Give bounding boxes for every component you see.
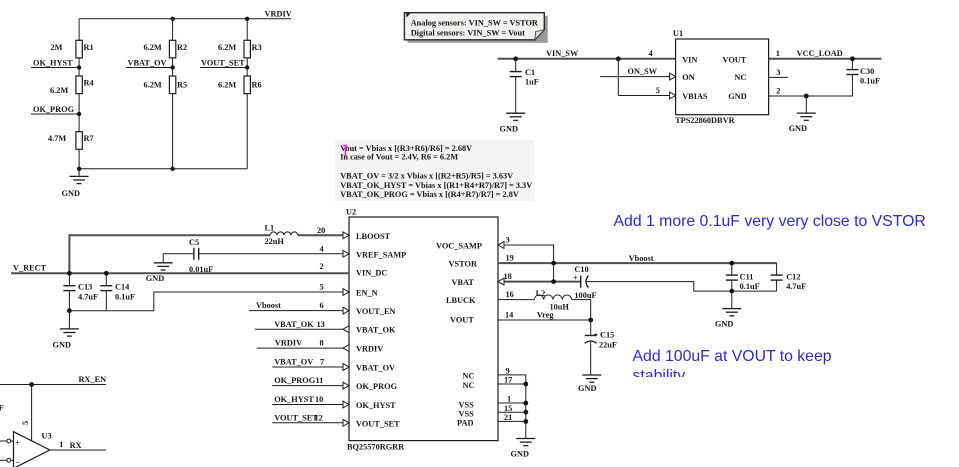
svg-text:1: 1 bbox=[59, 440, 63, 449]
junction Vboost at C11 bbox=[729, 261, 734, 266]
wire R6 to bottom rail bbox=[246, 94, 248, 169]
formula VBAT_OV bbox=[340, 171, 513, 180]
inductor L2 bbox=[534, 289, 571, 311]
node VBAT_OV stub bbox=[126, 58, 173, 67]
junction VOC at VBAT bbox=[551, 279, 556, 284]
svg-text:R4: R4 bbox=[84, 79, 94, 88]
wire VRDIV top rail bbox=[79, 18, 291, 20]
svg-text:VBAT_OV: VBAT_OV bbox=[128, 58, 167, 67]
svg-text:Add 100uF at VOUT to keep: Add 100uF at VOUT to keep bbox=[633, 348, 832, 365]
svg-text:12: 12 bbox=[315, 413, 323, 422]
svg-text:U1: U1 bbox=[673, 29, 683, 38]
svg-text:6: 6 bbox=[320, 301, 324, 310]
svg-text:R6: R6 bbox=[252, 81, 262, 90]
pin 3 stub NC U1 bbox=[769, 68, 788, 78]
junction VOC at VSTOR bbox=[551, 261, 556, 266]
svg-text:OK_HYST: OK_HYST bbox=[33, 58, 73, 67]
op-amp U1 body TPS22860DBVR bbox=[673, 29, 769, 125]
junction VSS15 bus bbox=[523, 410, 528, 415]
svg-text:OK_PROG: OK_PROG bbox=[274, 376, 316, 385]
pin 4 number U1 bbox=[649, 49, 653, 58]
svg-text:NC: NC bbox=[734, 73, 746, 82]
svg-text:R2: R2 bbox=[177, 43, 187, 52]
capacitor C13 bbox=[63, 273, 98, 310]
svg-text:RX: RX bbox=[70, 441, 82, 450]
junction OK_PROG bbox=[77, 112, 81, 116]
svg-text:VRDIV: VRDIV bbox=[275, 339, 302, 348]
svg-text:VBAT_OK_PROG = Vbias x [(R4+R7: VBAT_OK_PROG = Vbias x [(R4+R7)/R7] = 2.… bbox=[340, 190, 519, 199]
svg-text:VSS: VSS bbox=[459, 400, 475, 409]
svg-text:NC: NC bbox=[463, 381, 475, 390]
wire VSS pin1 bbox=[498, 395, 526, 404]
formula VBAT_OK_HYST bbox=[340, 181, 532, 190]
formula Vout bbox=[340, 144, 472, 153]
capacitor C11 bbox=[726, 263, 760, 291]
wire RX output bbox=[50, 440, 106, 450]
svg-text:17: 17 bbox=[504, 376, 512, 385]
svg-text:C15: C15 bbox=[600, 331, 614, 340]
junction bottom rail col2 bbox=[170, 167, 174, 171]
svg-text:13: 13 bbox=[317, 320, 325, 329]
wire U3 minus input bbox=[0, 458, 14, 462]
wire R5 to bottom rail bbox=[172, 94, 174, 169]
svg-text:LBOOST: LBOOST bbox=[356, 232, 391, 241]
pin arrow LBOOST bbox=[343, 232, 349, 239]
svg-text:16: 16 bbox=[506, 290, 514, 299]
svg-text:+: + bbox=[573, 274, 578, 283]
wire VBIAS bbox=[618, 95, 675, 97]
svg-text:C13: C13 bbox=[78, 283, 92, 292]
svg-text:VRDIV: VRDIV bbox=[356, 345, 383, 354]
junction RX_EN bbox=[29, 382, 34, 387]
svg-text:GND: GND bbox=[62, 189, 80, 198]
pin arrow EN_N bbox=[343, 289, 349, 296]
svg-text:VBAT_OK_HYST = Vbias x [(R1+R4: VBAT_OK_HYST = Vbias x [(R1+R4+R7)/R7] =… bbox=[340, 181, 532, 190]
note callout shadow bbox=[408, 16, 548, 43]
svg-text:GND: GND bbox=[53, 341, 71, 350]
svg-text:10: 10 bbox=[315, 395, 323, 404]
svg-text:VIN_SW: VIN_SW bbox=[546, 49, 579, 58]
svg-text:5: 5 bbox=[656, 86, 660, 95]
svg-text:R1: R1 bbox=[84, 43, 94, 52]
wire R2 to R5 bbox=[172, 58, 174, 76]
capacitor C12 bbox=[771, 263, 807, 291]
junction V_RECT C13 bbox=[67, 271, 72, 276]
svg-text:C5: C5 bbox=[189, 238, 199, 247]
svg-text:Vboost: Vboost bbox=[629, 254, 654, 263]
wire PAD pin21 bbox=[498, 413, 526, 422]
svg-text:VBAT_OK: VBAT_OK bbox=[274, 320, 314, 329]
wire U3 plus input bbox=[0, 439, 14, 443]
svg-text:ON: ON bbox=[682, 73, 694, 82]
ground C5 bbox=[146, 263, 173, 283]
svg-text:GND: GND bbox=[789, 124, 807, 133]
wire VSS pin15 bbox=[498, 404, 526, 413]
svg-text:6.2M: 6.2M bbox=[50, 86, 68, 95]
junction OK_HYST bbox=[77, 65, 81, 69]
svg-text:3: 3 bbox=[776, 68, 780, 77]
capacitor C10 polarized bbox=[573, 265, 597, 300]
wire VBIAS tap vertical bbox=[617, 59, 619, 96]
svg-text:2: 2 bbox=[776, 86, 780, 95]
svg-text:0.1uF: 0.1uF bbox=[860, 77, 880, 86]
node Vboost VOUT_EN stub bbox=[249, 301, 349, 310]
node ON_SW stub bbox=[600, 67, 675, 76]
svg-text:4.7M: 4.7M bbox=[48, 134, 66, 143]
wire VREF_SAMP pin4 bbox=[199, 244, 349, 253]
svg-text:U2: U2 bbox=[346, 208, 356, 217]
svg-text:2M: 2M bbox=[51, 43, 63, 52]
node VRDIV label bbox=[265, 10, 292, 19]
junction top rail R3 column bbox=[245, 17, 249, 21]
svg-text:8: 8 bbox=[320, 339, 324, 348]
node VOUT_SET stub bbox=[200, 58, 247, 67]
svg-text:VSTOR: VSTOR bbox=[449, 260, 478, 269]
node VBAT_OV stub bbox=[272, 358, 349, 367]
annotation add VOUT cap line2 clipped bbox=[633, 367, 686, 384]
formula R6 case bbox=[340, 152, 458, 161]
svg-text:Add 1 more 0.1uF very very clo: Add 1 more 0.1uF very very close to VSTO… bbox=[614, 213, 926, 230]
svg-text:14: 14 bbox=[505, 311, 513, 320]
wire column1 rail to R1 bbox=[78, 19, 80, 41]
svg-text:EN_N: EN_N bbox=[356, 289, 378, 298]
svg-text:1: 1 bbox=[776, 49, 780, 58]
wire VOC_SAMP pin3 bbox=[498, 236, 554, 282]
inductor L1 bbox=[265, 224, 298, 246]
capacitor label fragment uF bbox=[0, 404, 4, 413]
svg-text:OK_PROG: OK_PROG bbox=[356, 382, 398, 391]
wire caps bottom rail to EN_N bbox=[69, 283, 349, 311]
wire LBUCK pin16 bbox=[498, 290, 534, 299]
wire VIN_SW net bbox=[498, 49, 676, 59]
svg-text:7: 7 bbox=[320, 358, 324, 367]
svg-text:OK_HYST: OK_HYST bbox=[356, 401, 396, 410]
junction NC17 bus bbox=[523, 382, 528, 387]
junction top rail R2 column bbox=[170, 17, 174, 21]
annotation add VSTOR cap bbox=[614, 213, 926, 230]
svg-text:VSS: VSS bbox=[459, 409, 475, 418]
svg-text:TPS22860DBVR: TPS22860DBVR bbox=[675, 116, 735, 125]
svg-text:19: 19 bbox=[506, 254, 514, 263]
junction GND pin2 bbox=[804, 94, 809, 99]
svg-text:OK_PROG: OK_PROG bbox=[33, 105, 75, 114]
svg-text:−: − bbox=[16, 458, 21, 467]
resistor R7 bbox=[48, 132, 94, 150]
capacitor C1 bbox=[510, 59, 539, 113]
capacitor C14 bbox=[100, 273, 135, 310]
junction VSS1 bus bbox=[523, 401, 528, 406]
svg-text:2: 2 bbox=[320, 262, 324, 271]
svg-text:22uH: 22uH bbox=[265, 237, 285, 246]
svg-text:VBAT_OV: VBAT_OV bbox=[274, 358, 313, 367]
svg-text:Analog sensors: VIN_SW = VSTOR: Analog sensors: VIN_SW = VSTOR bbox=[411, 19, 539, 28]
svg-text:6.2M: 6.2M bbox=[218, 81, 236, 90]
svg-text:3: 3 bbox=[506, 236, 510, 245]
svg-text:VBIAS: VBIAS bbox=[682, 92, 708, 101]
wire column2 rail to R2 bbox=[172, 19, 174, 41]
wire V_RECT to LBOOST riser bbox=[69, 235, 270, 273]
junction VOUT_SET bbox=[245, 65, 249, 69]
svg-text:6.2M: 6.2M bbox=[144, 43, 162, 52]
svg-text:C1: C1 bbox=[525, 68, 535, 77]
capacitor C15 polarized bbox=[585, 320, 617, 375]
node VOUT_SET stub U2 bbox=[272, 413, 349, 422]
node VBAT_OK stub bbox=[255, 320, 349, 329]
ground U1 bbox=[789, 113, 816, 133]
pin arrow ON bbox=[670, 73, 676, 80]
svg-text:VOUT_SET: VOUT_SET bbox=[201, 58, 245, 67]
resistor R5 bbox=[144, 76, 188, 94]
svg-text:uF: uF bbox=[0, 404, 4, 413]
pin arrow VRDIV out bbox=[343, 345, 349, 352]
svg-text:VOUT_SET: VOUT_SET bbox=[356, 419, 400, 428]
wire VSTOR Vboost net bbox=[498, 254, 777, 263]
svg-text:VOUT: VOUT bbox=[723, 55, 747, 64]
svg-text:GND: GND bbox=[728, 92, 746, 101]
pin arrow VBAT_OK out bbox=[343, 326, 349, 333]
wire RX_EN net bbox=[0, 375, 106, 384]
pin arrow VBIAS bbox=[670, 92, 676, 99]
pin arrow OK_PROG bbox=[343, 382, 349, 389]
svg-text:GND: GND bbox=[511, 450, 529, 459]
junction VIN_SW at VBIAS tap bbox=[616, 56, 621, 61]
svg-text:GND: GND bbox=[146, 274, 164, 283]
svg-text:ON_SW: ON_SW bbox=[628, 67, 658, 76]
svg-text:18: 18 bbox=[504, 272, 512, 281]
svg-text:VOUT: VOUT bbox=[450, 316, 474, 325]
junction bottom rail col1 bbox=[77, 167, 81, 171]
svg-text:VREF_SAMP: VREF_SAMP bbox=[356, 250, 406, 259]
node OK_PROG stub bbox=[31, 105, 79, 114]
svg-text:0.1uF: 0.1uF bbox=[740, 282, 760, 291]
svg-text:VOUT_EN: VOUT_EN bbox=[356, 307, 395, 316]
wire bottom rail bbox=[79, 168, 247, 170]
svg-text:V_RECT: V_RECT bbox=[13, 264, 47, 273]
wire GND pin2 U1 bbox=[769, 75, 853, 97]
junction PAD bus bbox=[523, 419, 528, 424]
svg-text:R5: R5 bbox=[177, 81, 187, 90]
text caret bbox=[343, 145, 348, 156]
svg-text:NC: NC bbox=[463, 371, 475, 380]
pin arrow VOC_SAMP bbox=[498, 242, 504, 249]
svg-text:1uF: 1uF bbox=[525, 78, 539, 87]
capacitor C5 bbox=[189, 238, 213, 274]
svg-text:VBAT_OV = 3/2 x Vbias x [(R2+R: VBAT_OV = 3/2 x Vbias x [(R2+R5)/R5] = 3… bbox=[340, 171, 513, 180]
svg-text:C14: C14 bbox=[115, 283, 129, 292]
pin arrow VBAT bbox=[498, 278, 504, 285]
pin arrow VREF_SAMP bbox=[343, 250, 349, 257]
svg-text:C11: C11 bbox=[740, 272, 754, 281]
svg-text:5: 5 bbox=[21, 421, 30, 425]
svg-text:VIN: VIN bbox=[682, 55, 697, 64]
junction caps bottom rail bbox=[67, 308, 72, 313]
ground C11 bbox=[715, 309, 741, 329]
svg-text:BQ25570RGRR: BQ25570RGRR bbox=[347, 443, 405, 452]
wire GND stem divider bbox=[78, 169, 80, 177]
svg-text:4: 4 bbox=[320, 244, 324, 253]
resistor R2 bbox=[144, 40, 188, 58]
wire VBAT pin18 bbox=[498, 272, 581, 281]
junction VBAT_OV bbox=[170, 65, 174, 69]
wire VOUT pin14 Vreg bbox=[498, 311, 591, 320]
svg-text:6.2M: 6.2M bbox=[218, 43, 236, 52]
junction VIN_SW at C1 bbox=[513, 56, 518, 61]
svg-text:R7: R7 bbox=[84, 134, 94, 143]
svg-text:VIN_DC: VIN_DC bbox=[356, 268, 387, 277]
wire NC pin9 bbox=[498, 366, 526, 438]
svg-text:4.7uF: 4.7uF bbox=[78, 292, 98, 301]
svg-text:4: 4 bbox=[649, 49, 653, 58]
formulas background bbox=[335, 140, 535, 202]
wire column3 rail to R3 bbox=[246, 19, 248, 41]
svg-text:VBAT_OK: VBAT_OK bbox=[356, 326, 396, 335]
wire R1 to R4 bbox=[78, 58, 80, 76]
svg-text:Vboost: Vboost bbox=[256, 301, 281, 310]
node OK_PROG stub U2 bbox=[272, 376, 349, 385]
svg-text:VOUT_SET: VOUT_SET bbox=[274, 413, 318, 422]
svg-text:L1: L1 bbox=[265, 224, 275, 233]
svg-text:21: 21 bbox=[504, 413, 512, 422]
node OK_HYST stub bbox=[31, 58, 79, 67]
annotation add VOUT cap line1 bbox=[633, 348, 832, 365]
svg-text:1: 1 bbox=[507, 395, 511, 404]
wire GND stem U1 bbox=[805, 96, 807, 113]
wire V_RECT net bbox=[11, 262, 349, 273]
svg-text:RX_EN: RX_EN bbox=[79, 375, 107, 384]
svg-text:+: + bbox=[15, 439, 20, 448]
pin 5 number U1 bbox=[656, 86, 660, 95]
wire R4 to R7 bbox=[78, 94, 80, 132]
ground VSS bus bbox=[511, 439, 536, 459]
svg-text:GND: GND bbox=[500, 125, 518, 134]
svg-text:OK_HYST: OK_HYST bbox=[274, 395, 314, 404]
svg-text:VBAT_OV: VBAT_OV bbox=[356, 364, 395, 373]
svg-text:C12: C12 bbox=[786, 272, 800, 281]
node OK_HYST stub U2 bbox=[272, 395, 349, 404]
ground divider network bbox=[62, 176, 89, 198]
capacitor C30 bbox=[846, 59, 880, 86]
wire R3 to R6 bbox=[246, 58, 248, 76]
ground C1 bbox=[500, 113, 526, 133]
svg-text:C30: C30 bbox=[860, 67, 874, 76]
junction VCC_LOAD at C30 bbox=[850, 56, 855, 61]
svg-text:6.2M: 6.2M bbox=[144, 81, 162, 90]
wire GND stem C11 bbox=[731, 291, 733, 309]
svg-text:Vreg: Vreg bbox=[537, 311, 555, 320]
svg-text:PAD: PAD bbox=[457, 418, 473, 427]
wire GND stem C13 bbox=[68, 311, 70, 329]
svg-text:LBUCK: LBUCK bbox=[446, 296, 476, 305]
svg-text:GND: GND bbox=[715, 320, 733, 329]
wire RX_EN to U3 enable bbox=[21, 385, 32, 441]
resistor R4 bbox=[50, 76, 94, 95]
svg-text:+: + bbox=[594, 331, 599, 340]
resistor R6 bbox=[218, 76, 262, 94]
svg-text:GND: GND bbox=[578, 384, 596, 393]
svg-text:L2: L2 bbox=[536, 289, 546, 298]
wire C5 to ground bbox=[163, 254, 194, 263]
junction VOUT node bbox=[588, 318, 593, 323]
svg-text:R3: R3 bbox=[252, 43, 262, 52]
svg-text:In case of Vout = 2.4V, R6 = 6: In case of Vout = 2.4V, R6 = 6.2M bbox=[340, 152, 458, 161]
resistor R1 bbox=[51, 40, 94, 58]
formula VBAT_OK_PROG bbox=[340, 190, 519, 199]
wire NC pin17 bbox=[498, 376, 526, 385]
wire L2 to VOUT node bbox=[572, 300, 591, 320]
svg-text:100uF: 100uF bbox=[574, 291, 596, 300]
pin arrow VOUT_SET bbox=[343, 419, 349, 426]
svg-text:22uF: 22uF bbox=[599, 341, 617, 350]
junction V_RECT C14 bbox=[104, 271, 109, 276]
svg-text:VOC_SAMP: VOC_SAMP bbox=[436, 242, 482, 251]
op-amp U3 bbox=[14, 432, 52, 467]
ground C13 bbox=[53, 329, 79, 350]
junction C11 bottom bbox=[729, 289, 734, 294]
svg-text:15: 15 bbox=[504, 404, 512, 413]
svg-text:4.7uF: 4.7uF bbox=[786, 282, 806, 291]
IC U2 body BQ25570RGRR bbox=[346, 208, 498, 452]
note callout box bbox=[404, 13, 544, 40]
pin 1 number U1 bbox=[776, 49, 780, 58]
svg-text:Digital sensors: VIN_SW = Vout: Digital sensors: VIN_SW = Vout bbox=[411, 29, 525, 38]
svg-text:9: 9 bbox=[506, 366, 510, 375]
wire VCC_LOAD net bbox=[769, 49, 882, 59]
svg-text:11: 11 bbox=[316, 376, 324, 385]
wire R7 to bottom rail bbox=[78, 149, 80, 169]
resistor R3 bbox=[218, 40, 262, 58]
ground C15 bbox=[578, 375, 601, 393]
svg-text:0.1uF: 0.1uF bbox=[115, 292, 135, 301]
svg-text:VBAT: VBAT bbox=[452, 278, 475, 287]
svg-text:20: 20 bbox=[317, 226, 325, 235]
wire L1 to pin20 bbox=[298, 226, 349, 235]
svg-text:U3: U3 bbox=[42, 432, 52, 441]
svg-text:VRDIV: VRDIV bbox=[265, 10, 292, 19]
svg-text:5: 5 bbox=[320, 283, 324, 292]
wire C10 to caps bottom rail bbox=[587, 282, 777, 292]
pin arrow VBAT_OV bbox=[343, 364, 349, 371]
pin arrow OK_HYST bbox=[343, 401, 349, 408]
svg-text:stability: stability bbox=[633, 367, 686, 384]
node VRDIV stub bbox=[257, 339, 349, 348]
svg-text:VCC_LOAD: VCC_LOAD bbox=[797, 49, 843, 58]
pin arrow VOUT_EN bbox=[343, 307, 349, 314]
